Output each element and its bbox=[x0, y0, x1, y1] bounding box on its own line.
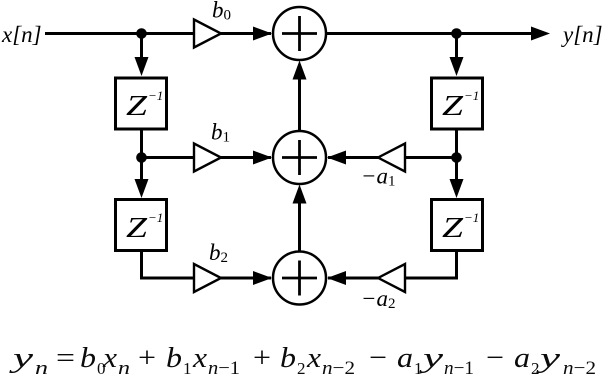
svg-text:−1: −1 bbox=[464, 210, 479, 225]
delay Z2 (z^-1 box) bbox=[116, 200, 167, 251]
summer S2 (middle adder) bbox=[273, 131, 326, 184]
svg-text:y[n]: y[n] bbox=[561, 22, 603, 47]
wire: top summer to output node bbox=[327, 32, 457, 35]
svg-text:n: n bbox=[118, 358, 130, 378]
svg-text:n−1: n−1 bbox=[444, 358, 474, 378]
svg-text:y: y bbox=[418, 342, 443, 374]
wire: output node down to delay Z3 bbox=[455, 34, 458, 63]
gain -a2 (triangle amplifier, left pointing) bbox=[378, 264, 405, 292]
equation: difference equation y_n bbox=[8, 342, 596, 379]
wire: x[n] input line bbox=[45, 32, 194, 35]
svg-text:b0: b0 bbox=[212, 0, 231, 24]
node: right delay chain dot bbox=[451, 152, 462, 163]
svg-text:−1: −1 bbox=[148, 210, 163, 225]
gain -a1 (triangle amplifier, left pointing) bbox=[378, 144, 405, 172]
svg-text:x: x bbox=[102, 342, 117, 374]
summer S3 (bottom adder) bbox=[273, 252, 326, 305]
wire: gain -a2 output to bottom summer bbox=[328, 277, 378, 280]
arrowhead: into top summer from b0 bbox=[253, 27, 272, 41]
arrowhead: into delay Z3 bbox=[450, 57, 464, 76]
svg-text:+: + bbox=[253, 342, 271, 374]
delay Z1 (z^-1 box) bbox=[116, 78, 167, 129]
wire: gain b0 output to top summer bbox=[221, 32, 271, 35]
arrowhead: into bottom summer from b2 bbox=[253, 271, 272, 285]
gain b2 (triangle amplifier) bbox=[194, 264, 221, 292]
node: input branch dot bbox=[136, 28, 147, 39]
arrowhead: into middle summer from b1 bbox=[253, 151, 272, 165]
arrowhead: into middle summer from bottom summer bbox=[293, 185, 307, 204]
svg-text:1: 1 bbox=[414, 359, 423, 378]
arrowhead: into delay Z2 bbox=[135, 179, 149, 198]
wire: output node to y[n] arrow bbox=[457, 32, 535, 35]
summer S1 (top adder) bbox=[273, 7, 326, 60]
svg-text:b1: b1 bbox=[211, 120, 230, 146]
svg-text:x: x bbox=[306, 342, 321, 374]
wire: gain b1 output to middle summer bbox=[221, 156, 271, 159]
svg-text:n−1: n−1 bbox=[208, 358, 240, 378]
svg-text:b: b bbox=[80, 342, 96, 374]
arrowhead: into delay Z1 bbox=[135, 57, 149, 76]
wire: delay Z4 bottom elbow to gain -a2 bbox=[405, 252, 457, 278]
svg-text:−1: −1 bbox=[148, 88, 163, 103]
gain b0 (triangle amplifier) bbox=[194, 20, 221, 48]
svg-text:2: 2 bbox=[297, 359, 306, 378]
wire: input node down to delay Z1 bbox=[140, 34, 143, 63]
svg-text:n−2: n−2 bbox=[322, 358, 355, 378]
wire: delay Z3 to node, down to delay Z4 bbox=[455, 130, 458, 184]
svg-text:a: a bbox=[514, 342, 530, 374]
svg-text:=: = bbox=[56, 342, 75, 374]
svg-text:x[n]: x[n] bbox=[1, 22, 42, 47]
wire: middle summer up to top summer bbox=[298, 72, 301, 131]
svg-text:1: 1 bbox=[183, 359, 192, 378]
node: output branch dot bbox=[451, 28, 462, 39]
svg-text:Z: Z bbox=[442, 213, 464, 244]
wire: bottom summer up to middle summer bbox=[298, 196, 301, 252]
wire: gain -a1 output to middle summer bbox=[328, 156, 378, 159]
svg-text:+: + bbox=[138, 342, 156, 374]
wire: node to gain -a1 bbox=[405, 156, 457, 159]
svg-text:b: b bbox=[166, 342, 182, 374]
svg-text:−a1: −a1 bbox=[361, 164, 396, 190]
node: left delay chain dot bbox=[136, 152, 147, 163]
svg-text:x: x bbox=[192, 342, 207, 374]
svg-text:−a2: −a2 bbox=[361, 286, 396, 312]
svg-text:−: − bbox=[486, 342, 504, 374]
svg-text:y: y bbox=[8, 342, 33, 374]
arrowhead: into top summer from middle summer bbox=[293, 61, 307, 80]
svg-text:a: a bbox=[397, 342, 413, 374]
wire: delay Z1 to node, down to delay Z2 bbox=[140, 130, 143, 184]
svg-text:Z: Z bbox=[126, 213, 148, 244]
svg-text:b: b bbox=[280, 342, 296, 374]
arrowhead: into delay Z4 bbox=[450, 179, 464, 198]
arrowhead: into middle summer from -a1 bbox=[327, 151, 346, 165]
arrowhead: y[n] output arrow bbox=[531, 27, 550, 41]
gain b1 (triangle amplifier) bbox=[194, 144, 221, 172]
wire: gain b2 output to bottom summer bbox=[221, 277, 271, 280]
wire: node to gain b1 bbox=[142, 156, 195, 159]
svg-text:n: n bbox=[35, 358, 48, 378]
svg-text:−: − bbox=[369, 342, 387, 374]
arrowhead: into bottom summer from -a2 bbox=[327, 271, 346, 285]
wire: delay Z2 bottom elbow to gain b2 bbox=[142, 252, 195, 278]
svg-text:−1: −1 bbox=[464, 88, 479, 103]
delay Z4 (z^-1 box) bbox=[432, 200, 483, 251]
svg-text:b2: b2 bbox=[209, 240, 228, 266]
svg-text:Z: Z bbox=[442, 91, 464, 122]
svg-text:y: y bbox=[535, 342, 560, 374]
svg-text:2: 2 bbox=[531, 359, 540, 378]
delay Z3 (z^-1 box) bbox=[432, 78, 483, 129]
svg-text:n−2: n−2 bbox=[563, 358, 596, 378]
svg-text:Z: Z bbox=[126, 91, 148, 122]
